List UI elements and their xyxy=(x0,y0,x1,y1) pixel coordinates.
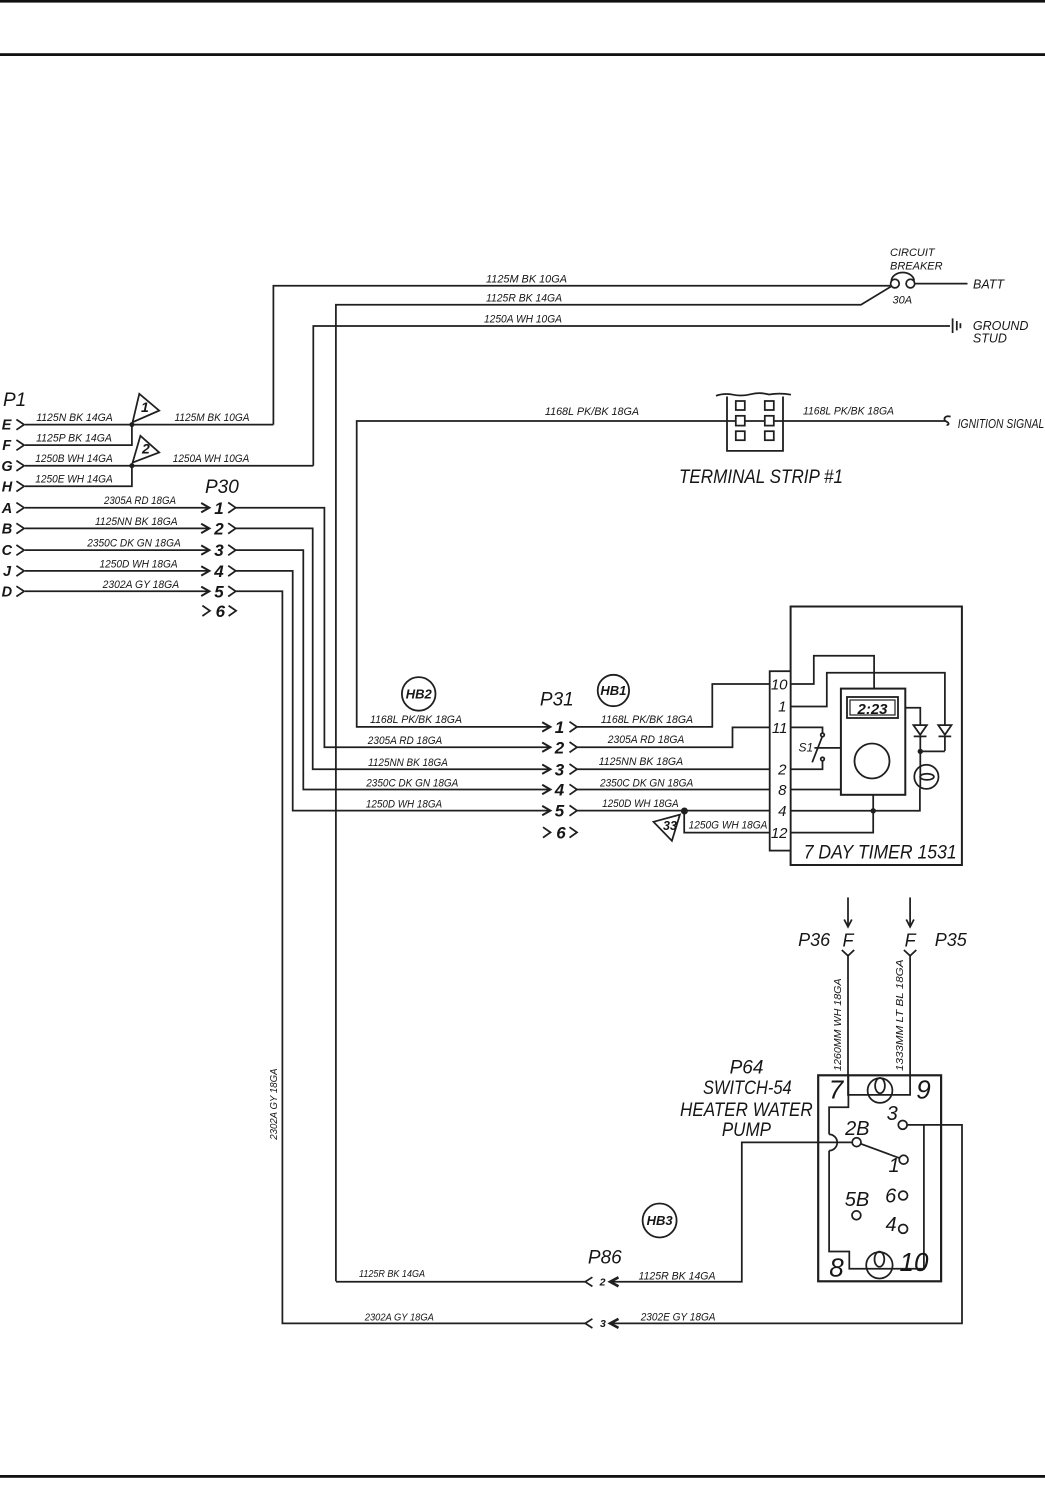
svg-text:2350C DK GN 18GA: 2350C DK GN 18GA xyxy=(599,778,693,790)
connector P86 xyxy=(588,1248,622,1269)
svg-text:1168L PK/BK 18GA: 1168L PK/BK 18GA xyxy=(545,406,639,418)
switch contact 2B xyxy=(844,1118,869,1146)
svg-text:1125M BK 10GA: 1125M BK 10GA xyxy=(486,273,567,285)
svg-text:10: 10 xyxy=(771,676,788,693)
connector P35 arrow F xyxy=(904,897,968,955)
svg-text:1125NN BK 18GA: 1125NN BK 18GA xyxy=(95,516,178,528)
svg-text:1250D WH 18GA: 1250D WH 18GA xyxy=(366,799,442,811)
switch coil top (pins 7-9) xyxy=(848,1075,910,1103)
P30 row 4 : wire 1250D WH 18GA from P1-J xyxy=(25,558,236,581)
svg-text:P31: P31 xyxy=(540,689,574,710)
svg-text:HEATER WATER: HEATER WATER xyxy=(680,1100,813,1121)
svg-text:P86: P86 xyxy=(588,1248,622,1269)
svg-text:HB3: HB3 xyxy=(647,1213,674,1228)
svg-text:H: H xyxy=(2,479,13,495)
svg-text:9: 9 xyxy=(916,1075,930,1105)
wire 1125N BK 14GA (P1-E to splice 1) xyxy=(25,412,273,425)
svg-text:2:23: 2:23 xyxy=(856,701,888,718)
wire 1125P BK 14GA (P1-F to splice 1) xyxy=(25,425,132,446)
wire P31-1 to timer pin 10 xyxy=(577,684,770,727)
timer wire pin 1 to diode CR2 xyxy=(791,673,945,725)
timer wire pin 8 to module xyxy=(791,789,841,791)
svg-text:IGNITION SIGNAL: IGNITION SIGNAL xyxy=(958,417,1045,431)
timer wire pin 12 riser xyxy=(791,811,874,833)
svg-text:4: 4 xyxy=(554,781,565,800)
splice 2 (junction dot and flag) xyxy=(129,436,159,468)
svg-text:8: 8 xyxy=(829,1252,844,1282)
wire P31-2 to timer pin 11 xyxy=(577,727,770,747)
svg-text:8: 8 xyxy=(778,782,787,799)
wire 1168L PK/BK 18GA (terminal strip to P31-1) xyxy=(357,406,946,727)
switch contact 1 xyxy=(888,1155,908,1177)
P86 row 3 : wire 2302E GY 18GA xyxy=(364,1125,962,1330)
P1 pin J xyxy=(3,564,24,580)
svg-text:4: 4 xyxy=(778,803,786,820)
wire P31-3 to timer pin 2 xyxy=(577,768,770,770)
svg-text:A: A xyxy=(1,501,12,517)
svg-text:4: 4 xyxy=(213,562,224,581)
svg-text:2: 2 xyxy=(213,520,224,539)
svg-text:2302A GY 18GA: 2302A GY 18GA xyxy=(364,1312,434,1323)
svg-text:1: 1 xyxy=(141,399,149,415)
svg-text:F: F xyxy=(905,931,917,951)
wire 1333MM LT BL 18GA (P35 to switch pin 9) xyxy=(895,956,910,1095)
switch coil bottom (pins 8-10) xyxy=(866,1252,892,1279)
svg-text:11: 11 xyxy=(772,720,788,737)
svg-text:3: 3 xyxy=(600,1318,606,1330)
svg-text:2305A RD 18GA: 2305A RD 18GA xyxy=(103,495,176,507)
diode CR1 (left) xyxy=(905,708,927,752)
wire P30-2 to P31-3 xyxy=(236,528,550,769)
node IGNITION SIGNAL (hook) xyxy=(944,416,1044,431)
splice 1 (junction dot and flag) xyxy=(129,394,159,427)
wire 1250A WH 10GA (splice 2 to ground stud) xyxy=(313,313,950,465)
svg-text:1250A WH 10GA: 1250A WH 10GA xyxy=(173,453,250,465)
svg-text:3: 3 xyxy=(214,541,224,560)
svg-text:2350C DK GN 18GA: 2350C DK GN 18GA xyxy=(86,538,180,550)
svg-text:P64: P64 xyxy=(730,1058,764,1079)
svg-text:TERMINAL STRIP #1: TERMINAL STRIP #1 xyxy=(679,467,843,488)
svg-text:2: 2 xyxy=(777,762,787,779)
P31 row 3 : wire 1125NN BK 18GA xyxy=(542,756,683,779)
connector P1 xyxy=(3,390,26,411)
svg-text:1260MM WH 18GA: 1260MM WH 18GA xyxy=(833,978,844,1071)
svg-text:2305A RD 18GA: 2305A RD 18GA xyxy=(367,735,442,747)
svg-text:1125M BK 10GA: 1125M BK 10GA xyxy=(175,412,250,424)
svg-text:1250A WH 10GA: 1250A WH 10GA xyxy=(484,313,562,325)
svg-text:1: 1 xyxy=(555,718,564,737)
svg-text:BATT: BATT xyxy=(973,277,1005,291)
svg-text:30A: 30A xyxy=(893,294,913,306)
svg-text:2B: 2B xyxy=(844,1118,869,1140)
P1 pin G xyxy=(1,459,24,475)
svg-text:2: 2 xyxy=(141,441,150,457)
svg-text:1168L PK/BK 18GA: 1168L PK/BK 18GA xyxy=(601,714,693,726)
svg-text:G: G xyxy=(1,459,12,475)
P1 pin A xyxy=(1,501,24,517)
svg-text:2302A GY 18GA: 2302A GY 18GA xyxy=(269,1068,280,1141)
timer wire pin 11 to switch S1 xyxy=(791,727,823,733)
svg-text:1125R BK 14GA: 1125R BK 14GA xyxy=(639,1270,716,1282)
svg-text:E: E xyxy=(2,418,13,434)
svg-text:4: 4 xyxy=(885,1214,896,1236)
P1 pin C xyxy=(2,543,25,559)
P1 pin E xyxy=(2,418,24,434)
svg-text:2: 2 xyxy=(599,1276,606,1288)
switch contact 6 xyxy=(885,1186,907,1208)
wire P30-1 to P31-2 xyxy=(236,508,550,748)
connector P31 xyxy=(540,689,574,710)
wire 1125M BK 10GA (splice 1 to circuit breaker) xyxy=(273,273,890,424)
switch P64 label xyxy=(680,1058,813,1142)
hub HB2 xyxy=(402,677,436,711)
wire 1260MM WH 18GA (P36 to switch pin 7) xyxy=(833,956,848,1095)
svg-text:2302E GY 18GA: 2302E GY 18GA xyxy=(640,1312,716,1324)
svg-text:B: B xyxy=(2,522,12,538)
svg-text:2: 2 xyxy=(554,738,565,757)
svg-text:1168L PK/BK 18GA: 1168L PK/BK 18GA xyxy=(370,714,462,726)
svg-text:SWITCH-54: SWITCH-54 xyxy=(703,1078,792,1099)
svg-text:6: 6 xyxy=(216,602,226,621)
timer wire pin 4 row to lamp xyxy=(791,789,920,814)
timer wire pin 10 to module top xyxy=(791,656,875,689)
svg-text:1125N BK 14GA: 1125N BK 14GA xyxy=(36,412,113,424)
svg-text:1250E WH 14GA: 1250E WH 14GA xyxy=(35,474,113,486)
P30 row 6 (empty) xyxy=(202,602,236,621)
svg-text:10: 10 xyxy=(900,1247,929,1277)
svg-text:1125R BK 14GA: 1125R BK 14GA xyxy=(359,1269,425,1280)
svg-text:3: 3 xyxy=(555,760,565,779)
timer pin strip xyxy=(770,671,791,850)
svg-text:HB2: HB2 xyxy=(406,686,433,701)
terminal strip TS1 xyxy=(679,393,843,488)
P31 row 5 : wire 1250D WH 18GA xyxy=(542,798,678,821)
svg-text:CIRCUIT: CIRCUIT xyxy=(890,247,936,259)
wire 1125R BK 14GA (circuit breaker to P86 pin 2) xyxy=(336,287,891,1282)
svg-text:1: 1 xyxy=(778,699,786,716)
switch pin 9 xyxy=(916,1075,930,1105)
P1 pin B xyxy=(2,522,24,538)
svg-text:F: F xyxy=(2,438,12,454)
switch P64 inner outline xyxy=(829,1075,924,1268)
svg-text:5: 5 xyxy=(214,582,224,601)
svg-text:1125P BK 14GA: 1125P BK 14GA xyxy=(36,433,112,445)
svg-text:1: 1 xyxy=(214,499,223,518)
svg-text:P35: P35 xyxy=(935,930,968,950)
P30 row 2 : wire 1125NN BK 18GA from P1-B xyxy=(25,516,236,539)
svg-text:PUMP: PUMP xyxy=(722,1120,771,1141)
svg-text:S1: S1 xyxy=(799,741,814,755)
P1 pin F xyxy=(2,438,24,454)
switch lever 2B-1 xyxy=(861,1144,900,1158)
switch pin 7 xyxy=(829,1075,845,1105)
svg-text:12: 12 xyxy=(771,825,788,842)
svg-text:1125NN BK 18GA: 1125NN BK 18GA xyxy=(599,756,683,768)
svg-text:7: 7 xyxy=(829,1075,845,1105)
diode CR2 (right) xyxy=(938,725,951,751)
P30 row 5 : wire 2302A GY 18GA from P1-D xyxy=(25,579,236,602)
switch contact 5B xyxy=(845,1189,869,1220)
svg-text:33: 33 xyxy=(663,819,677,833)
svg-text:P36: P36 xyxy=(798,930,831,950)
wire P30-5 to P86-3 (2302A GY 18GA) xyxy=(236,591,586,1323)
svg-text:P30: P30 xyxy=(205,477,239,498)
switch pin 8 xyxy=(829,1252,844,1282)
svg-text:1250D WH 18GA: 1250D WH 18GA xyxy=(602,798,679,810)
timer module (clock unit) xyxy=(841,689,905,811)
svg-text:C: C xyxy=(2,543,13,559)
svg-text:1168L PK/BK 18GA: 1168L PK/BK 18GA xyxy=(803,406,894,418)
wire 1250E WH 14GA (P1-H to splice 2) xyxy=(25,466,132,487)
svg-text:STUD: STUD xyxy=(973,332,1007,346)
svg-text:1125NN BK 18GA: 1125NN BK 18GA xyxy=(368,757,448,769)
wire P31-5 to timer pin 4 xyxy=(577,810,770,812)
svg-text:1250B WH 14GA: 1250B WH 14GA xyxy=(35,453,113,465)
splice 33 (junction dot and flag) xyxy=(654,808,688,841)
hub HB1 xyxy=(598,675,629,706)
P31 row 1 : wire 1168L PK/BK 18GA xyxy=(542,714,693,737)
lamp DS1 xyxy=(914,751,938,789)
ground stud xyxy=(953,318,1029,345)
switch pin 10 xyxy=(900,1247,929,1277)
node diode junction xyxy=(918,749,945,754)
wire P30-4 to P31-5 xyxy=(236,571,550,811)
svg-text:1333MM LT BL 18GA: 1333MM LT BL 18GA xyxy=(895,959,906,1071)
wire 1250B WH 14GA (P1-G to splice 2) xyxy=(25,453,313,466)
timer wire pin 2 to switch S1 xyxy=(791,761,823,769)
wire P31-4 to timer pin 8 xyxy=(577,789,770,791)
node BATT xyxy=(915,277,1006,291)
svg-text:6: 6 xyxy=(556,824,566,843)
switch contact 4 xyxy=(885,1214,907,1236)
svg-text:1250G WH 18GA: 1250G WH 18GA xyxy=(689,819,768,831)
connector P30 xyxy=(205,477,239,498)
circuit breaker CB 30A xyxy=(890,247,943,306)
P31 row 6 (empty) xyxy=(543,824,577,843)
wire P30-3 to P31-4 xyxy=(236,550,550,789)
svg-text:5: 5 xyxy=(555,802,565,821)
svg-text:HB1: HB1 xyxy=(600,683,626,698)
svg-text:D: D xyxy=(2,584,13,600)
P30 row 1 : wire 2305A RD 18GA from P1-A xyxy=(25,495,236,518)
P31 row 2 : wire 2305A RD 18GA xyxy=(542,734,684,757)
svg-text:F: F xyxy=(843,931,855,951)
svg-text:6: 6 xyxy=(885,1186,897,1208)
connector P36 arrow F xyxy=(798,897,854,955)
P1 pin H xyxy=(2,479,24,495)
svg-text:2350C DK GN 18GA: 2350C DK GN 18GA xyxy=(365,778,458,790)
P31 row 4 : wire 2350C DK GN 18GA xyxy=(542,778,693,800)
wire 1250G WH 18GA (splice 33 to timer pin 12) xyxy=(684,811,770,833)
svg-text:2305A RD 18GA: 2305A RD 18GA xyxy=(607,734,684,746)
7 day timer 1531 box xyxy=(791,607,962,866)
svg-text:7 DAY TIMER 1531: 7 DAY TIMER 1531 xyxy=(804,843,957,864)
svg-text:5B: 5B xyxy=(845,1189,869,1211)
switch P64 housing box xyxy=(818,1075,941,1281)
svg-text:J: J xyxy=(3,564,12,580)
switch contact 3 xyxy=(887,1103,908,1129)
hub HB3 xyxy=(643,1204,677,1238)
svg-text:1125R BK 14GA: 1125R BK 14GA xyxy=(486,292,562,304)
P1 pin D xyxy=(2,584,25,600)
P86 row 2 : wire 1125R BK 14GA xyxy=(336,1142,852,1288)
svg-text:BREAKER: BREAKER xyxy=(890,260,943,272)
svg-text:1250D WH 18GA: 1250D WH 18GA xyxy=(100,558,178,570)
svg-text:P1: P1 xyxy=(3,390,26,411)
svg-text:2302A GY 18GA: 2302A GY 18GA xyxy=(102,579,179,591)
svg-text:3: 3 xyxy=(887,1103,898,1125)
P30 row 3 : wire 2350C DK GN 18GA from P1-C xyxy=(25,538,236,561)
switch S1 xyxy=(799,733,841,762)
